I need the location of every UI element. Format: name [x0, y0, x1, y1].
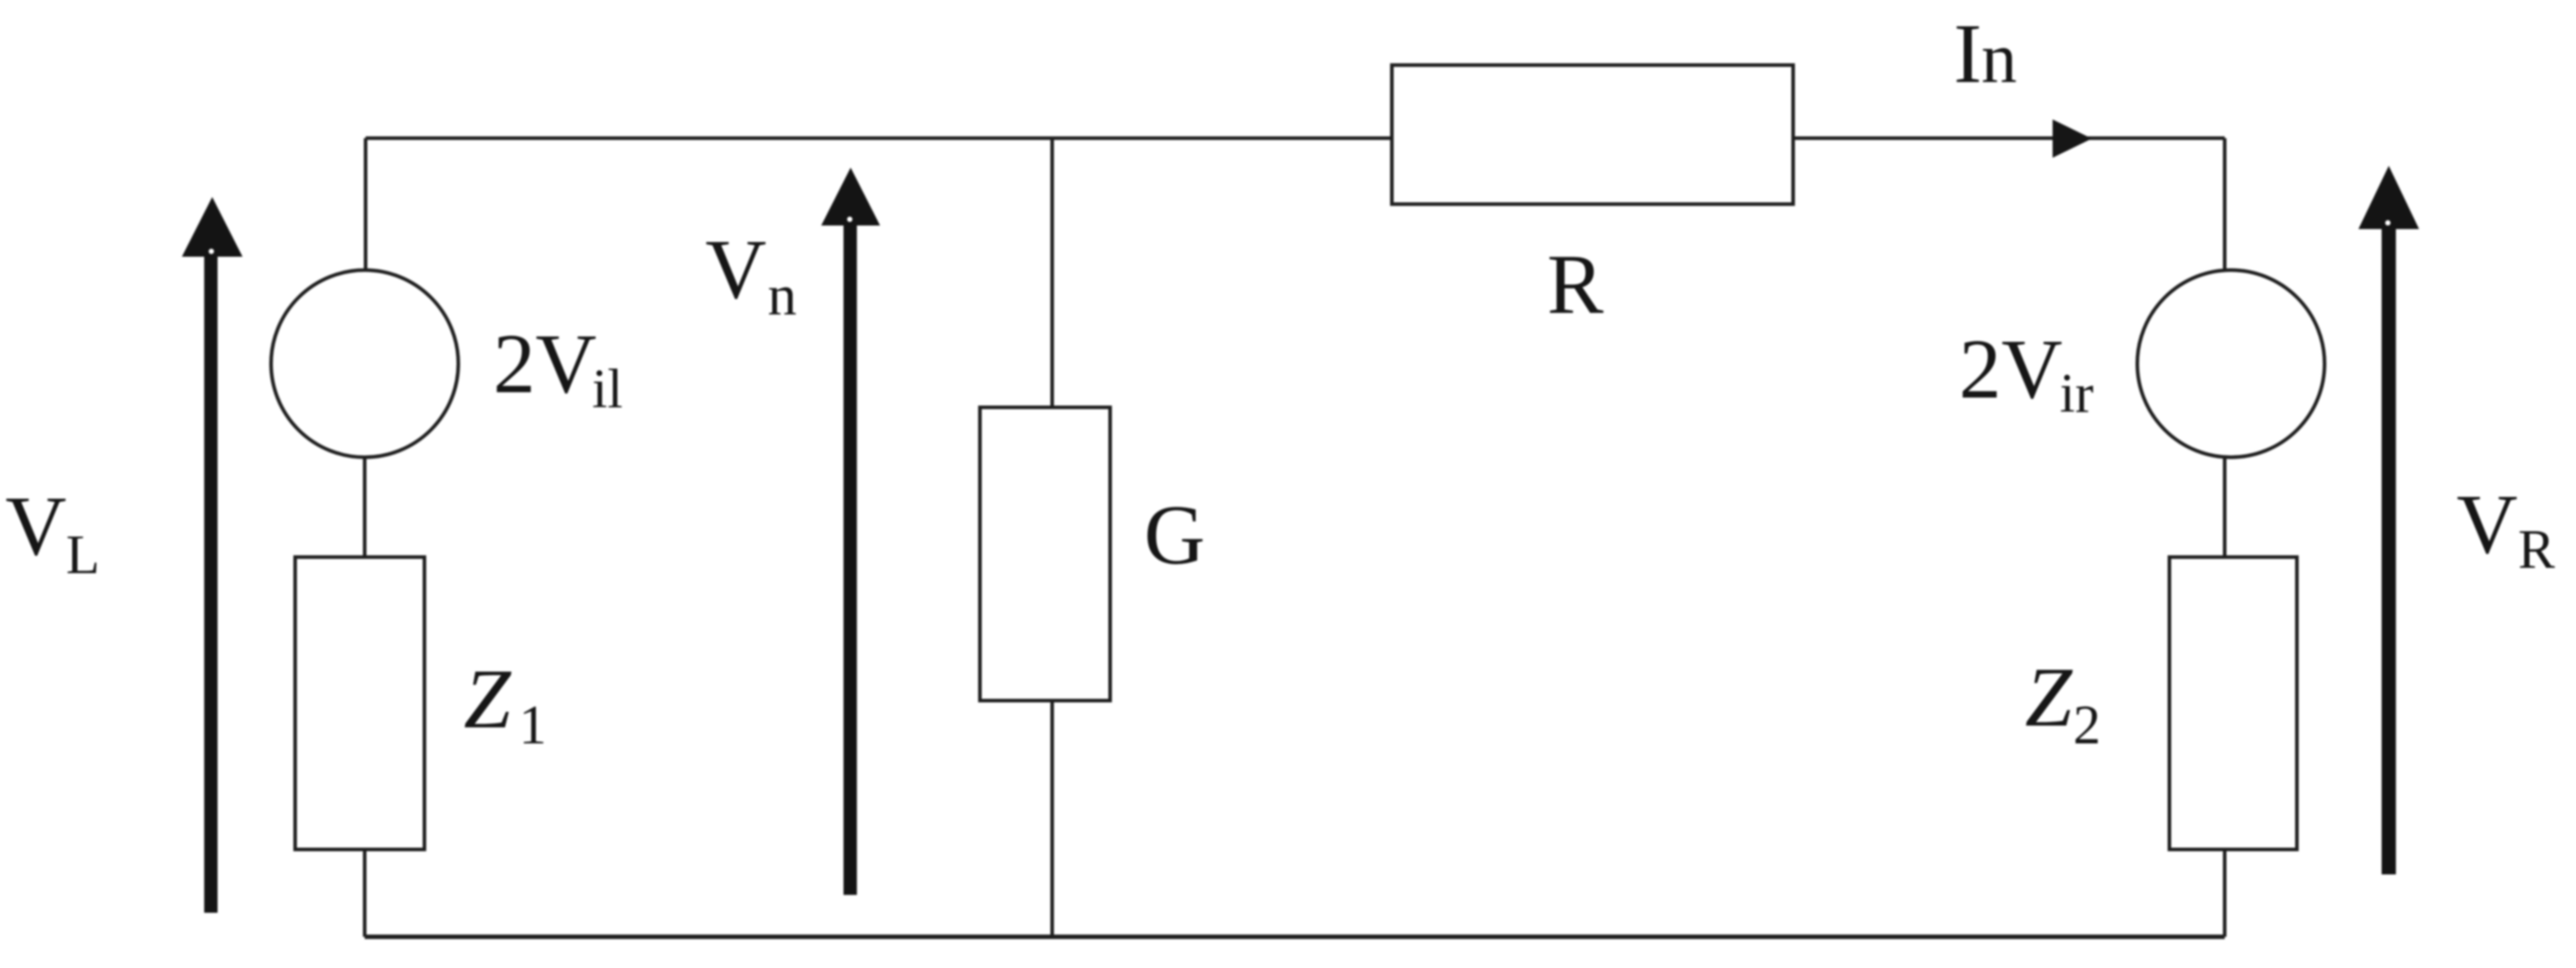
svg-text:Z: Z	[2025, 650, 2073, 744]
svg-text:ir: ir	[2060, 364, 2094, 424]
wire Z1 to bottom rail	[363, 849, 366, 937]
conductance G box	[980, 407, 1110, 701]
svg-text:Z: Z	[464, 652, 512, 746]
svg-text:G: G	[1144, 488, 1206, 582]
voltage source 2Vir circle	[2137, 270, 2325, 457]
label VL	[5, 479, 100, 586]
impedance Z1 box	[295, 557, 424, 849]
label Vn	[705, 222, 797, 328]
svg-text:L: L	[66, 525, 100, 586]
label Z2	[2025, 650, 2101, 756]
svg-text:2V: 2V	[1959, 322, 2062, 416]
current In arrowhead on top wire	[2053, 119, 2092, 158]
voltage source 2Vil circle	[271, 270, 458, 457]
label VR	[2457, 477, 2555, 580]
wire from R to right corner	[1793, 136, 2225, 140]
resistor R box	[1392, 65, 1793, 204]
arrow VR	[2358, 166, 2419, 874]
arrow Vn	[821, 168, 880, 895]
svg-text:R: R	[1547, 237, 1604, 332]
wire bottom rail	[365, 935, 2225, 939]
label In	[1954, 6, 2017, 101]
label 2Vir	[1959, 322, 2094, 424]
svg-text:2: 2	[2073, 695, 2101, 756]
svg-text:n: n	[768, 264, 797, 328]
wire Z2 to bottom rail	[2223, 849, 2226, 937]
node top junction to G branch	[1050, 138, 1054, 407]
svg-text:V: V	[705, 222, 767, 316]
impedance Z2 box	[2169, 557, 2297, 849]
wire top horizontal left segment	[366, 136, 1052, 140]
svg-text:n: n	[1981, 20, 2017, 98]
svg-text:2V: 2V	[493, 316, 597, 411]
label Z1	[464, 652, 547, 756]
wire source 2Vil to Z1	[363, 456, 366, 557]
wire right vertical drop	[2223, 138, 2226, 271]
arrow VL	[182, 197, 243, 913]
wire top horizontal to resistor R	[1052, 136, 1392, 140]
svg-text:V: V	[2457, 477, 2518, 571]
svg-text:I: I	[1954, 6, 1982, 101]
svg-text:R: R	[2518, 520, 2555, 580]
wire left vertical drop	[364, 138, 367, 271]
label 2Vil	[493, 316, 622, 420]
svg-text:il: il	[592, 359, 622, 420]
svg-text:V: V	[5, 479, 67, 573]
wire source 2Vir to Z2	[2223, 457, 2226, 557]
wire G to bottom rail	[1050, 701, 1054, 937]
svg-text:1: 1	[519, 695, 547, 756]
